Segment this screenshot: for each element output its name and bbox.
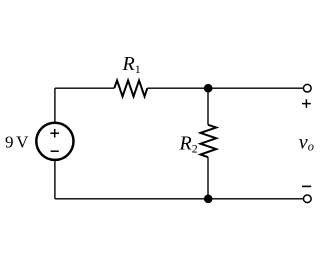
svg-text:vo: vo <box>299 132 314 154</box>
svg-text:9: 9 <box>5 132 14 151</box>
svg-text:R1: R1 <box>122 53 141 76</box>
svg-text:V: V <box>16 132 29 151</box>
svg-text:R2: R2 <box>179 133 198 156</box>
